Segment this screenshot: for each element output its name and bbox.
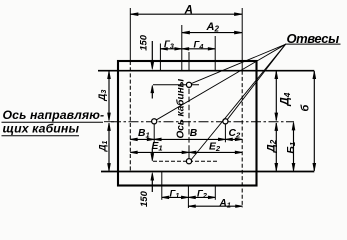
- wall inner bottom line: [101, 171, 314, 173]
- cabin axis upper tick: [188, 52, 190, 71]
- svg-text:С2: С2: [229, 128, 241, 140]
- dimension A1 line: [188, 205, 242, 207]
- dimension G2 line: [188, 196, 215, 198]
- tick G3 left: [159, 44, 161, 71]
- svg-text:Г1: Г1: [170, 188, 180, 200]
- svg-text:Д3: Д3: [97, 90, 108, 102]
- svg-text:В1: В1: [138, 128, 150, 140]
- svg-text:Отвесы: Отвесы: [287, 31, 340, 46]
- right dimension D4: [275, 71, 277, 120]
- cabin axis tick through E dimension: [188, 146, 190, 158]
- dimension B line: [154, 138, 225, 140]
- dimension C2 line: [225, 138, 242, 140]
- dimension G3 line: [160, 48, 181, 50]
- svg-text:щих кабины: щих кабины: [3, 122, 80, 136]
- left dimension D1: [108, 123, 110, 171]
- svg-text:150: 150: [139, 34, 150, 51]
- top plumb row line: [153, 84, 199, 86]
- shaft width extension right (dashed below): [241, 8, 243, 71]
- svg-text:Ось направляю-: Ось направляю-: [3, 108, 105, 122]
- svg-text:150: 150: [139, 190, 150, 207]
- tick under right circle: [224, 125, 226, 143]
- svg-text:Е2: Е2: [209, 142, 221, 154]
- svg-text:Е1: Е1: [152, 141, 163, 153]
- right dimension D2: [275, 123, 277, 171]
- svg-text:Г3: Г3: [164, 39, 174, 51]
- dimension A2 line: [182, 32, 242, 34]
- plumb circle left: [152, 119, 157, 124]
- cabin axis vertical dashed: [188, 89, 190, 159]
- 150 top arrow down: [151, 41, 153, 64]
- 150 top arrow up: [151, 91, 153, 99]
- dimension G1 line: [162, 196, 189, 198]
- plumb circle bottom: [186, 159, 191, 164]
- dimension G4 line: [182, 48, 215, 50]
- svg-text:Д2: Д2: [266, 139, 278, 153]
- svg-text:Ось кабины: Ось кабины: [174, 78, 186, 138]
- tick for A2 / G3 / G4 at x=181.8: [181, 25, 183, 71]
- Otvesy underline: [285, 43, 341, 45]
- left dimension D3: [108, 71, 110, 120]
- 150 bottom arrow up: [151, 178, 153, 192]
- dimension E1 line: [130, 151, 189, 153]
- junction tick on left chain: [104, 121, 114, 123]
- svg-text:Г2: Г2: [197, 188, 207, 200]
- wall outer rectangle: [118, 61, 257, 186]
- svg-text:А2: А2: [206, 21, 220, 34]
- right dimension b (full height): [313, 71, 315, 171]
- svg-text:Д4: Д4: [280, 92, 293, 106]
- plumb circle top: [186, 82, 191, 87]
- wall inner top line: [98, 70, 314, 72]
- left label underline 1: [2, 121, 104, 123]
- svg-text:Г4: Г4: [194, 39, 204, 51]
- 150 bottom arrow down: [151, 149, 153, 156]
- svg-text:А: А: [184, 5, 193, 17]
- svg-text:Б1: Б1: [285, 142, 297, 154]
- dimension E2 line: [189, 151, 242, 153]
- svg-text:б: б: [299, 104, 311, 112]
- tick G1/G2/A1 center: [187, 186, 189, 208]
- tick G2 right: [214, 186, 216, 200]
- svg-text:А1: А1: [219, 198, 231, 210]
- shaft width extension left (dashed below): [129, 8, 131, 61]
- dimension B1 line: [130, 138, 154, 140]
- bottom plumb row dashed line: [153, 160, 219, 162]
- plumb circle right: [223, 119, 228, 124]
- right dimension B1v: [293, 123, 295, 171]
- tick under left circle: [153, 125, 155, 143]
- leader lines from Otvesy label: [191, 44, 285, 83]
- horizontal guide axis (dash-dot): [111, 121, 294, 123]
- tick G1 left: [161, 172, 163, 200]
- svg-text:Д1: Д1: [98, 140, 109, 152]
- tick G4 right: [214, 36, 216, 71]
- svg-text:В: В: [190, 128, 198, 139]
- dimension A line: [130, 13, 242, 15]
- left label underline 2: [2, 135, 80, 137]
